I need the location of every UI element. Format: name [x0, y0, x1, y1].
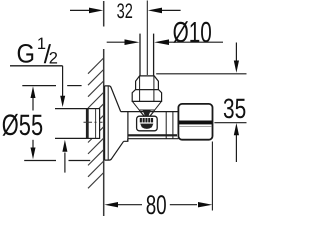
svg-text:Ø10: Ø10 — [173, 17, 212, 49]
svg-text:2: 2 — [49, 50, 58, 68]
svg-text:G: G — [17, 38, 36, 68]
svg-text:32: 32 — [117, 0, 133, 23]
svg-text:35: 35 — [223, 93, 246, 124]
svg-text:Ø55: Ø55 — [2, 109, 43, 142]
svg-text:80: 80 — [146, 190, 167, 216]
